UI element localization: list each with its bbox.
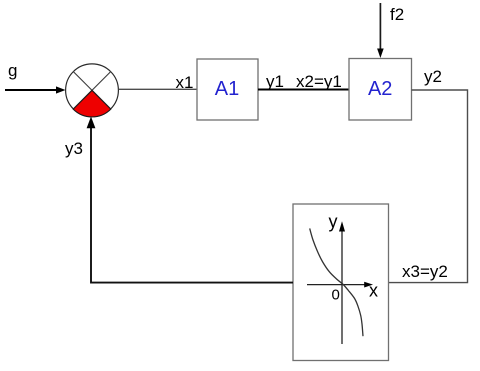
- svg-text:x3=y2: x3=y2: [402, 262, 448, 281]
- svg-text:g: g: [8, 61, 17, 80]
- svg-text:A1: A1: [215, 78, 239, 100]
- svg-text:0: 0: [332, 287, 340, 304]
- svg-text:y: y: [329, 212, 338, 232]
- svg-text:A2: A2: [368, 78, 392, 100]
- svg-text:x1: x1: [176, 73, 194, 92]
- svg-text:x: x: [369, 281, 378, 301]
- svg-text:y3: y3: [65, 139, 83, 158]
- svg-text:x2=y1: x2=y1: [296, 72, 342, 91]
- svg-text:f2: f2: [390, 5, 404, 24]
- svg-text:y1: y1: [266, 72, 284, 91]
- svg-text:y2: y2: [424, 67, 442, 86]
